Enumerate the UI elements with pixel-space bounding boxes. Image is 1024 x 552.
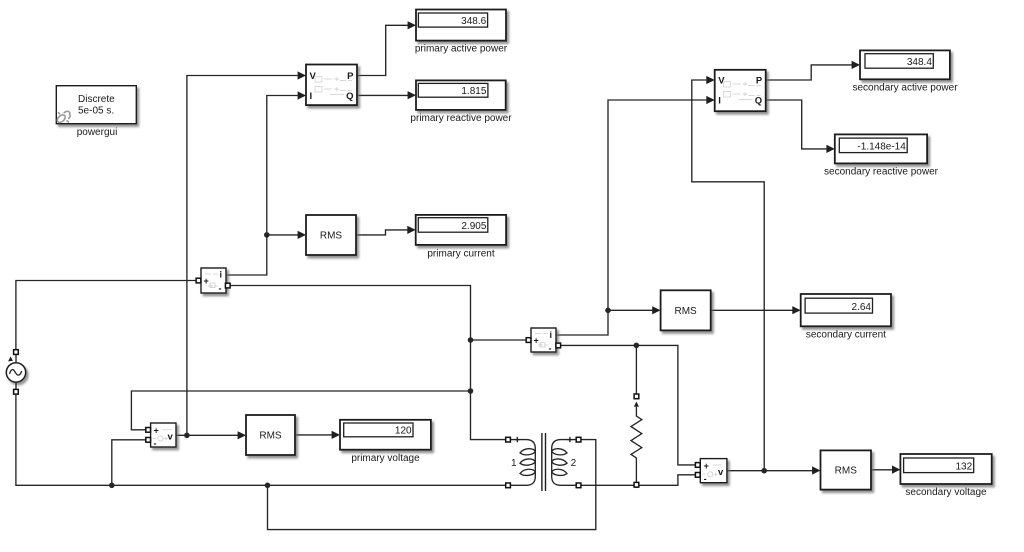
svg-text:i: i [550, 330, 553, 340]
arrow: PM1 I input arrowhead [298, 91, 306, 99]
node: junction dot bus / secondary return tap [265, 483, 271, 489]
transformer winding 2 petal c [552, 469, 567, 475]
svg-text:+: + [154, 425, 159, 435]
transformer winding 1 spine [534, 449, 536, 476]
transformer polarity + winding 1 [515, 437, 520, 442]
svg-text:secondary active power: secondary active power [852, 82, 958, 93]
block: display D4 primary voltage (120) [340, 420, 431, 450]
transformer winding 2 petal a [552, 449, 567, 455]
port: VM2 + input square [695, 463, 700, 468]
wire: PM2 P output to display D5 (secondary active power) [766, 65, 852, 80]
svg-text:i: i [220, 270, 223, 280]
transformer winding 2 lead-out [552, 476, 577, 486]
port: CM2 - output square [556, 343, 561, 348]
svg-text:primary reactive power: primary reactive power [410, 113, 512, 124]
node: junction dot node A / VM1 tap [468, 388, 474, 394]
svg-text:RMS: RMS [320, 231, 343, 242]
block: display D5 secondary active power (348.4) [860, 50, 950, 79]
wire: PM1 P output to display D1 (primary active power) [357, 25, 408, 75]
arrow: PM1 V input arrowhead [298, 71, 306, 79]
port: transformer winding 2 bottom square [576, 483, 581, 488]
svg-text:Q: Q [346, 91, 353, 102]
port: transformer winding 2 top square [576, 437, 581, 442]
label: secondary reactive power [824, 166, 939, 177]
svg-text:2.64: 2.64 [852, 302, 872, 313]
block: voltage measurement VM2 (+ - v) [700, 459, 727, 484]
block: RMS3 (secondary current RMS) [661, 290, 711, 330]
svg-text:-: - [549, 344, 552, 354]
node: junction dot on i signal at RMS1 branch [264, 232, 270, 238]
port: resistor bottom square [634, 482, 639, 487]
svg-text:348.6: 348.6 [461, 16, 486, 27]
arrow: PM2 V input arrowhead [706, 76, 714, 84]
wire: RMS2 output to display D4 (primary voltage) [295, 434, 332, 436]
block: display D7 secondary current (2.64) [801, 294, 891, 326]
transformer winding 1 petal a [520, 449, 535, 455]
label: powergui [77, 127, 118, 138]
node: junction dot resistor top tap [634, 343, 640, 349]
svg-text:RMS: RMS [835, 466, 858, 477]
block: RMS1 (primary current RMS) [306, 215, 356, 255]
block: power measurement PM1 (V I / P Q) [306, 65, 357, 106]
port: VM1 - input square [146, 438, 151, 443]
block: RMS4 (secondary voltage RMS) [821, 450, 872, 489]
svg-text:132: 132 [956, 461, 973, 472]
svg-text:v: v [718, 467, 724, 478]
component: linear transformer T1 [510, 433, 576, 491]
arrow: display D1 input arrowhead [408, 21, 416, 29]
svg-text:1: 1 [511, 458, 517, 469]
svg-text:Q: Q [755, 96, 762, 107]
transformer core lines [542, 433, 546, 491]
wire: bus branch down and around to transformer winding 2 top port [268, 440, 596, 530]
transformer winding 1 petal b [520, 459, 535, 465]
svg-text:I: I [310, 91, 313, 102]
svg-text:348.4: 348.4 [907, 57, 932, 68]
label: primary active power [415, 44, 508, 55]
arrow: RMS4 input arrowhead [812, 466, 820, 474]
arrow: PM2 I input arrowhead [706, 96, 714, 104]
svg-text:secondary voltage: secondary voltage [905, 487, 987, 498]
svg-text:P: P [347, 71, 354, 82]
svg-text:1.815: 1.815 [461, 86, 486, 97]
arrow: display D5 input arrowhead [852, 61, 860, 69]
node: junction dot resistor bottom on secondary bottom wire [634, 483, 640, 489]
wire: RMS4 output to display D8 (secondary voltage) [871, 469, 893, 471]
svg-text:-: - [154, 438, 157, 448]
port: CM1 - output square [225, 283, 230, 288]
wire: VM2 v signal output to RMS4 input [727, 470, 813, 472]
label: secondary current [806, 329, 886, 340]
svg-text:primary voltage: primary voltage [351, 453, 420, 464]
transformer winding 1 petal c [520, 469, 535, 475]
wire: CM1 i signal output up to power measurement PM1 I input [226, 96, 298, 276]
wire: i signal junction up to power measurement PM2 I input [608, 100, 706, 310]
port: VM2 - input square [695, 473, 700, 478]
svg-text:secondary reactive power: secondary reactive power [824, 166, 939, 177]
wire: RMS3 output to display D7 (secondary current) [711, 309, 793, 311]
svg-text:-1.148e-14: -1.148e-14 [857, 141, 906, 152]
block: display D8 secondary voltage (132) [900, 454, 991, 484]
arrow: RMS3 input arrowhead [652, 306, 660, 314]
label: primary reactive power [410, 113, 512, 124]
arrow: display D8 input arrowhead [892, 466, 900, 474]
wire: transformer winding 2 bottom port right to VM2 - port [581, 475, 695, 486]
block: display D1 primary active power (348.6) [416, 10, 506, 41]
component: resistor load R1 [631, 402, 642, 484]
arrow: RMS1 input arrowhead [298, 231, 306, 239]
wire: CM2 - port right then down to VM2 + port [561, 345, 695, 465]
svg-text:P: P [756, 76, 763, 87]
wire: v signal branch up and over to power measurement PM2 V input [692, 80, 764, 471]
label: secondary voltage [905, 487, 987, 498]
wire: CM2 i signal output right and up to junction [556, 310, 608, 335]
node: junction dot node A / CM2 tap [468, 337, 474, 343]
block: voltage measurement VM1 (+ - v) [151, 423, 176, 448]
wire: VM1 v signal output to RMS2 input [176, 434, 238, 436]
wire: RMS1 output to display D3 (primary current) [356, 230, 408, 235]
resistor direction arrow [634, 402, 639, 407]
svg-text:V: V [718, 76, 725, 87]
arrow: display D7 input arrowhead [792, 306, 800, 314]
svg-text:2: 2 [571, 458, 577, 469]
node: junction dot on secondary v signal [761, 468, 767, 474]
svg-text:5e-05 s.: 5e-05 s. [78, 106, 114, 117]
wire: PM2 Q output to display D6 (secondary reactive power) [766, 100, 827, 149]
port: CM2 + input square [526, 338, 531, 343]
svg-text:I: I [718, 96, 721, 107]
port: AC source + square [14, 350, 19, 355]
block: display D3 primary current (2.905) [416, 215, 506, 245]
svg-text:Discrete: Discrete [78, 94, 115, 105]
block: current measurement CM1 (+ - i) [201, 268, 226, 294]
port: transformer winding 1 top square [506, 437, 511, 442]
block: display D2 primary reactive power (1.815) [416, 80, 506, 110]
block: power measurement PM2 (V I / P Q) [715, 70, 766, 111]
port: AC source - square [14, 389, 19, 394]
svg-text:+: + [204, 276, 209, 286]
svg-text:120: 120 [395, 426, 412, 437]
wire: CM1 - port right, down to transformer winding 1 top port (node A) [230, 286, 506, 440]
block: display D6 secondary reactive power (-1.148e-14) [835, 134, 927, 163]
component: AC voltage source V1 [6, 354, 25, 389]
label: primary voltage [351, 453, 420, 464]
transformer winding 2 petal b [552, 459, 567, 465]
node: junction dot on v signal at VM1 output [184, 433, 190, 439]
block: RMS2 (primary voltage RMS) [246, 415, 295, 455]
node: junction dot bus / VM1 - tap [109, 483, 115, 489]
transformer winding 1 lead-out [510, 476, 535, 486]
port: resistor top square [634, 394, 639, 399]
transformer winding 1 lead-in [510, 440, 535, 450]
svg-text:RMS: RMS [674, 306, 697, 317]
wire: bus branch up to VM1 - port [112, 440, 146, 486]
wire: i signal junction to RMS3 input [608, 309, 653, 311]
node: junction dot on secondary i signal [605, 308, 611, 314]
wire: PM1 Q output to display D2 (primary reactive power) [357, 94, 408, 96]
wire: AC source - terminal down to ground bus and right to transformer winding 1 bottom port [16, 392, 506, 486]
svg-text:powergui: powergui [77, 127, 118, 138]
svg-text:-: - [219, 284, 222, 294]
arrow: display D2 input arrowhead [408, 91, 416, 99]
arrow: display D3 input arrowhead [407, 226, 415, 234]
svg-text:2.905: 2.905 [461, 221, 486, 232]
wire: resistor top connection down from tap [635, 345, 637, 394]
port: CM1 + input square [196, 278, 201, 283]
block: powergui (Discrete 5e-05 s.) [56, 86, 136, 124]
svg-text:v: v [168, 431, 174, 442]
arrow: display D6 input arrowhead [826, 145, 834, 153]
transformer winding 2 spine [551, 449, 553, 476]
wire: node A branch to current measurement CM2 + port [471, 339, 527, 341]
svg-text:V: V [310, 71, 317, 82]
port: VM1 + input square [146, 428, 151, 433]
wire: branch of i signal to RMS1 input [267, 234, 298, 236]
label: secondary active power [852, 82, 958, 93]
transformer polarity + winding 2 [567, 437, 572, 442]
wire: AC source + terminal up and right to current measurement CM1 + port [16, 281, 196, 353]
transformer winding 2 lead-in [552, 440, 577, 450]
svg-text:primary current: primary current [427, 248, 494, 259]
wire: v signal branch up to power measurement PM1 V input [187, 76, 298, 436]
arrow: display D4 input arrowhead [332, 431, 340, 439]
svg-text:primary active power: primary active power [415, 44, 508, 55]
arrow: RMS2 input arrowhead [238, 431, 246, 439]
svg-text:secondary current: secondary current [806, 329, 886, 340]
label: primary current [427, 248, 494, 259]
svg-text:-: - [704, 474, 707, 484]
svg-text:RMS: RMS [259, 431, 282, 442]
wire: node A branch left to voltage measurement VM1 + port [131, 391, 470, 430]
svg-text:+: + [704, 461, 709, 471]
port: transformer winding 1 bottom square [506, 483, 511, 488]
svg-text:+: + [534, 336, 539, 346]
block: current measurement CM2 (+ - i) [531, 328, 556, 354]
